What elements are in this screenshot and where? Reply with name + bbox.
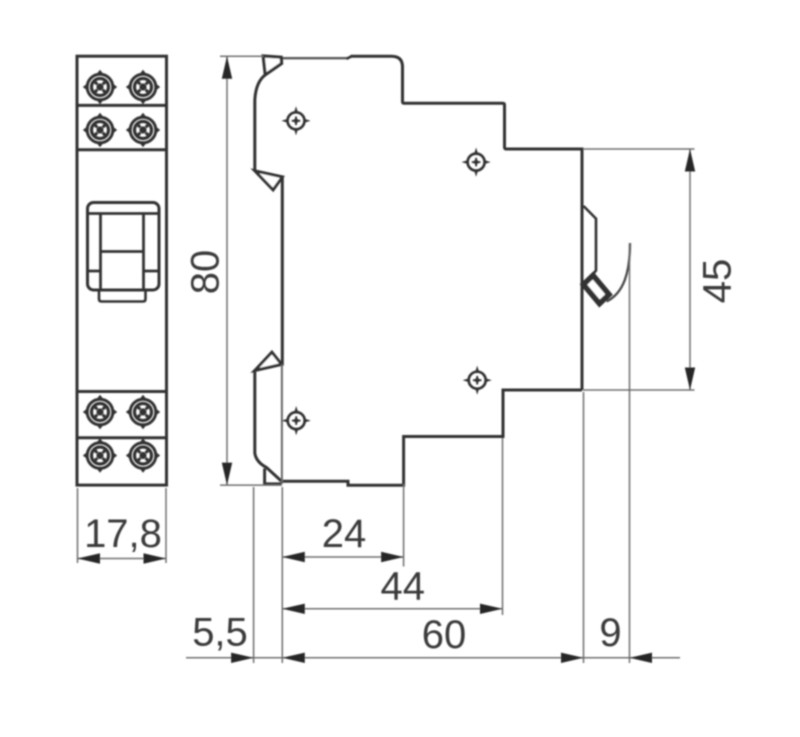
svg-text:44: 44 [381,565,426,609]
arrow 60 right [561,653,584,663]
arrow 5,5 left external [231,653,254,663]
terminal screw bottom row left [83,438,117,472]
dim 45 extension top [583,148,695,150]
arrowheads [78,56,696,663]
DIN clip hook [584,276,610,304]
bottom dims clip extension [629,243,631,663]
side view top-left chamfer triangle [263,56,281,75]
arrow 24 right [381,552,404,562]
terminal screw third row right [126,395,160,429]
front view divider line 1 [77,104,167,107]
front view body outline [77,56,167,485]
switch lever left inner edge [99,214,102,291]
svg-text:5,5: 5,5 [192,611,248,655]
side view top edge step tick [347,56,352,59]
switch lever outer frame [88,203,160,291]
bottom dims left inner extension [281,487,283,663]
side view left face lower [255,371,282,482]
arrow 45 bottom [685,368,695,391]
front view divider line 3 [77,390,167,393]
terminal screw top row right [126,70,160,104]
arrow 45 top [685,149,695,172]
dim 45 line [689,149,691,390]
side view DIN channel recessed face [281,177,284,365]
svg-text:9: 9 [599,611,621,655]
bottom dims left outer extension [253,487,255,663]
arrow 17,8 left [78,553,101,563]
terminal screw third row left [83,395,117,429]
side view top edge grey segment [264,57,347,59]
arrow 17,8 right [144,553,167,563]
bottom dimension line 5,5 / 60 / 9 [186,657,680,659]
screw cross lower left [282,406,311,435]
dim 44 extension right [502,438,504,615]
DIN clip arm [584,206,597,286]
side view right upper staircase [403,65,583,390]
bottom dims right extension at body edge [583,392,585,663]
dim 80 line [226,56,228,485]
dim 45 extension bottom [583,389,695,391]
side view left face upper slant [255,75,265,171]
switch lever right shelf [144,270,160,273]
switch lever right inner edge [142,214,145,291]
svg-text:24: 24 [322,512,367,556]
arrow 44 right [480,604,503,614]
svg-text:60: 60 [422,613,467,657]
dim 24 extension right [403,484,405,567]
front view divider line 2 [77,148,167,151]
arrow 24 left [282,552,305,562]
arrow 80 bottom [222,463,232,486]
svg-text:45: 45 [696,259,740,304]
arrow 5,5 right / 60 left external [282,653,305,663]
svg-text:80: 80 [184,250,228,295]
arrow 80 top [222,56,232,78]
terminal screw top row left [83,70,117,104]
screw cross upper right [462,148,491,177]
front view divider line 4 [77,436,167,439]
side view top edge dark segment [351,56,403,67]
side view upper notch triangle [255,171,283,190]
dim 44 line [282,608,502,610]
side view lower notch triangle [255,352,282,370]
dim 17,8 extension right [165,488,167,563]
screw cross lower right [463,366,492,395]
dim 24 line [282,556,403,558]
side view internal channel edge [281,364,283,484]
side view bottom staircase [282,390,582,485]
terminal screw bottom row right [126,438,160,472]
dim 17,8 extension left [77,488,79,563]
svg-text:17,8: 17,8 [84,512,162,556]
terminal screw second row left [83,113,117,147]
terminal screw second row right [126,113,160,147]
side view bottom-left chamfer triangle [265,469,282,484]
arrow 44 left [282,604,305,614]
switch lever bottom tab [99,290,146,302]
dim 80 extension top [220,55,264,57]
dim 80 extension bottom [220,484,282,486]
dim 17,8 line [78,558,167,560]
screw cross upper left [281,106,310,135]
DIN clip spring arc [607,243,631,302]
switch lever top bar [88,212,160,215]
arrow 9 right external [630,653,653,663]
switch lever middle line [101,250,144,253]
switch lever left shelf [88,270,101,273]
